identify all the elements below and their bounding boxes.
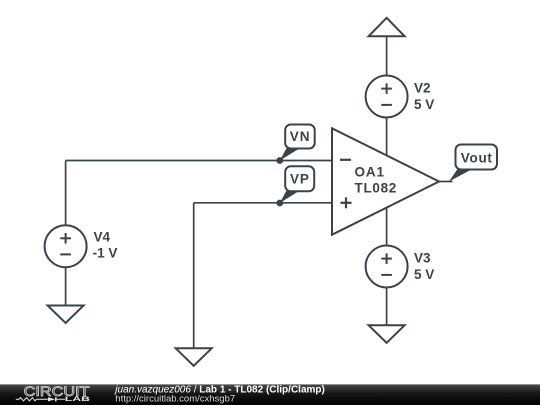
op-amp plus input marker (341, 197, 352, 208)
wire V3 to ground (386, 288, 388, 326)
voltage source V3 (366, 246, 408, 288)
wire VN net horizontal (66, 160, 332, 162)
svg-text:http://circuitlab.com/cxhsgb7: http://circuitlab.com/cxhsgb7 (115, 394, 235, 405)
node flag VP (280, 166, 314, 203)
wire power flag to V2 (386, 36, 388, 76)
node flag VN (280, 125, 315, 161)
node flag Vout (449, 145, 497, 182)
svg-text:V3: V3 (414, 251, 431, 266)
svg-text:5 V: 5 V (414, 267, 434, 282)
wire left vertical to V4 (65, 161, 67, 227)
op-amp OA1 body (332, 128, 439, 234)
voltage source V2 (366, 76, 408, 118)
label V3 value (414, 251, 434, 282)
svg-text:VP: VP (290, 172, 310, 187)
label OA1 TL082 (355, 164, 398, 195)
ground under V4 (48, 306, 84, 324)
svg-text:LAB: LAB (65, 396, 91, 403)
svg-text:VN: VN (290, 129, 311, 144)
junction dot VP (276, 200, 283, 207)
svg-text:Vout: Vout (461, 150, 493, 165)
wire V4 to ground (65, 267, 67, 306)
wire VP net horizontal (194, 202, 332, 204)
wire op-amp bottom to V3 (386, 208, 388, 247)
svg-text:V4: V4 (94, 230, 111, 245)
op-amp minus input marker (340, 159, 351, 161)
svg-text:TL082: TL082 (355, 181, 398, 196)
junction dot VN (276, 157, 283, 164)
wire op-amp output (439, 181, 453, 183)
power flag top (369, 18, 405, 37)
wire middle vertical to ground (193, 203, 195, 349)
ground middle (176, 348, 212, 366)
footer logo resistor-diode squiggle (16, 397, 65, 401)
svg-text:-1 V: -1 V (93, 246, 118, 261)
label V4 value (93, 230, 118, 261)
wire V2 to op-amp top (386, 118, 388, 157)
label V2 value (414, 81, 434, 112)
svg-text:OA1: OA1 (355, 164, 385, 179)
svg-text:V2: V2 (414, 81, 431, 96)
svg-text:5 V: 5 V (414, 97, 434, 112)
ground under V3 (369, 325, 405, 343)
voltage source V4 (45, 225, 87, 267)
